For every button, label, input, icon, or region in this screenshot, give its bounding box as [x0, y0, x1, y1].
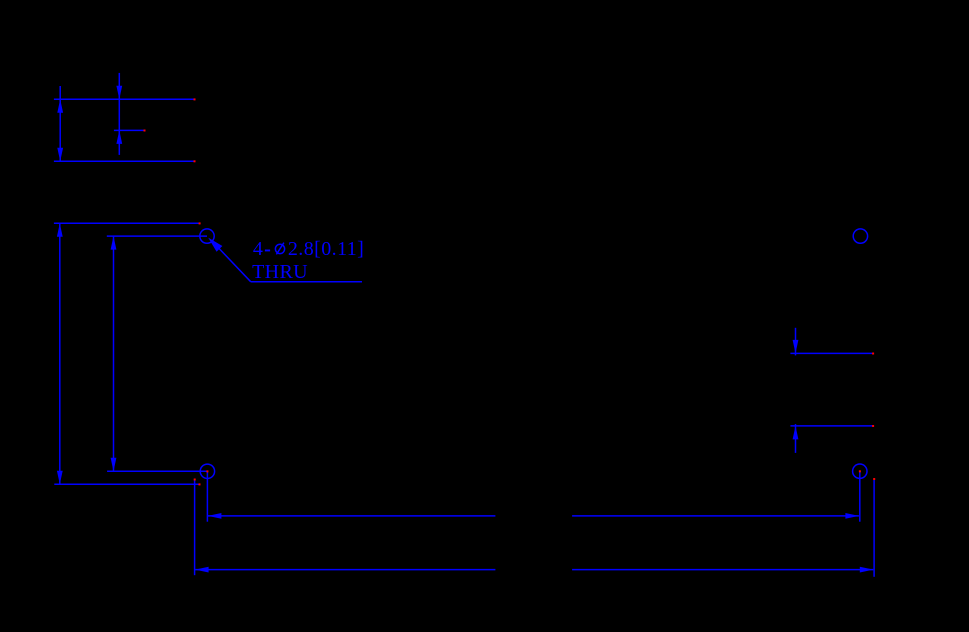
leader arrowhead at top-left hole: [208, 238, 222, 252]
vertical stub above F: [795, 328, 797, 356]
red endpoint dot line B: [194, 160, 196, 162]
red endpoint dot line C: [144, 130, 146, 132]
mounting hole bottom-left: [200, 464, 214, 478]
right pin dimension line F: [790, 352, 873, 354]
red endpoint dot line A: [194, 98, 196, 100]
bottom dimension hole-to-hole right segment: [572, 515, 859, 517]
arrow down at line B on x=60.2: [57, 148, 63, 162]
front view: top body line D: [54, 222, 200, 224]
right pin dimension line G: [790, 425, 873, 427]
mounting hole top-left: [200, 229, 214, 243]
red dot center bottom-right hole: [859, 470, 861, 472]
vertical stub below G: [795, 424, 797, 453]
arrow down at line A on x=119.3: [116, 86, 122, 100]
arrow up at line E on x=113.5: [111, 236, 117, 250]
arrow left on body width dim: [195, 567, 209, 573]
arrow down at line F: [793, 340, 799, 354]
right body edge extension: [873, 479, 875, 577]
svg-text:THRU: THRU: [252, 261, 308, 283]
arrow up at line D on x=59.8: [57, 223, 63, 237]
side view: top extension line A: [54, 98, 195, 100]
bottom dimension hole-to-hole left segment: [208, 515, 496, 517]
vertical dimension line hole spacing: [113, 236, 115, 472]
mounting hole top-right: [853, 229, 867, 243]
arrow down at bottom body line on x=59.8: [57, 471, 63, 485]
vertical dimension line body height: [59, 223, 61, 484]
front view: bottom hole row line: [107, 470, 207, 472]
arrow down at bottom hole row on x=113.5: [111, 458, 117, 472]
arrow right on hole-to-hole dim: [845, 513, 859, 519]
red dot top of left body extension: [194, 479, 196, 481]
arrow up at line C on x=119.3: [116, 130, 122, 144]
vertical dimension line A-C: [118, 73, 120, 155]
arrow left on hole-to-hole dim: [208, 513, 222, 519]
vertical dimension line height A-B: [59, 86, 61, 161]
mounting hole bottom-right: [853, 464, 867, 478]
hole callout dash: [265, 250, 270, 252]
red endpoint dot line F: [872, 353, 874, 355]
diameter symbol slash: [276, 243, 284, 255]
left body edge extension: [194, 479, 196, 575]
arrow up at line G: [793, 426, 799, 440]
front view: hole row line E: [107, 235, 207, 237]
leader diagonal line: [219, 248, 251, 281]
diameter symbol circle: [275, 244, 284, 253]
front view: bottom body line: [54, 483, 199, 485]
extension below bottom-right hole: [859, 471, 861, 522]
red endpoint dot bottom body line: [199, 483, 201, 485]
svg-text:4: 4: [253, 238, 263, 260]
extension below bottom-left hole: [206, 471, 208, 521]
svg-text:2.8[0.11]: 2.8[0.11]: [288, 238, 364, 260]
red dot top of right body extension: [873, 478, 875, 480]
leader underline: [251, 281, 362, 283]
arrow up at line A on x=60.2: [57, 99, 63, 113]
red endpoint dot line G: [872, 425, 874, 427]
red dot center bottom-left hole: [206, 470, 208, 472]
red endpoint dot line D: [199, 222, 201, 224]
bottom dimension body width right segment: [572, 569, 873, 571]
side view: bottom extension line B: [54, 160, 195, 162]
bottom dimension body width left segment: [195, 569, 495, 571]
side view: short standoff line C: [114, 129, 144, 131]
arrow right on body width dim: [860, 567, 874, 573]
